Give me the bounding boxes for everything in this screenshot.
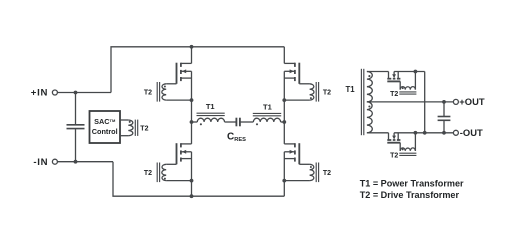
svg-text:-IN: -IN [33,157,48,168]
transistor Q6 (lower secondary sync MOSFET) [388,133,390,140]
op-amp U1 SAC Control block [90,111,121,143]
transformer T1 secondary winding upper half [367,72,372,102]
svg-text:CRES: CRES [227,132,246,144]
svg-text:+OUT: +OUT [459,96,485,107]
wire to output capacitor [443,102,445,116]
capacitor C-OUT [438,116,451,118]
wire SAC to T2 primary top [120,119,128,121]
transistor Q4 (lower-right bridge MOSFET) [294,143,296,147]
wire center tap to +OUT [367,101,453,103]
svg-text:T1: T1 [345,85,355,94]
svg-text:T2: T2 [144,90,152,97]
svg-text:T2: T2 [144,170,152,177]
transformer T2 primary winding (SAC drive) [128,120,133,136]
junction +IN / input cap [74,91,78,95]
wire midpoint A to T1 primary left [192,121,198,123]
svg-text:T2: T2 [140,126,148,133]
svg-text:T1: T1 [263,102,272,111]
transformer T1 primary winding (left half) [197,118,224,122]
wire upper output drop to -OUT rail [424,72,426,133]
transistor Q2 (lower-left bridge MOSFET) [180,143,182,147]
junction Q3 source / T2 drive [282,98,286,102]
svg-text:T2: T2 [323,90,331,97]
wire bottom rail [113,162,284,197]
transformer T2 drive winding for Q2 [166,163,176,165]
svg-text:T2: T2 [390,152,398,159]
svg-text:+IN: +IN [31,88,48,99]
svg-text:T2: T2 [323,170,331,177]
wire -IN to riser [57,161,113,163]
wire capacitor to -IN [75,129,77,162]
transistor Q1 (upper-left bridge MOSFET) [180,63,182,67]
junction bottom rail / left leg [190,194,194,198]
junction -IN / input cap [74,160,78,164]
wire output capacitor to -OUT [443,121,445,133]
junction Q6 drive return [414,131,418,135]
phase dot T1 primary left [200,123,202,125]
wire T1 secondary bottom terminal [367,132,389,134]
junction Q4 source / T2 drive [282,179,286,183]
junction Q1 source / T2 drive [190,98,194,102]
terminal -IN [52,159,57,164]
wire SAC to T2 primary bottom [120,135,128,137]
wire -OUT rail [394,132,453,134]
wire right leg: Q4 source to bottom rail [283,152,285,196]
junction output drop / -OUT rail [423,131,427,135]
transformer T2 drive winding for Q1 [166,83,176,85]
wire T1 left to C-RES [225,121,236,123]
svg-text:T2: T2 [390,91,398,98]
svg-text:T2 = Drive Transformer: T2 = Drive Transformer [360,190,460,200]
wire top rail [111,47,284,93]
junction Q2 source / T2 drive [190,179,194,183]
transformer T1 secondary winding lower half [367,102,372,133]
wire T1 right to midpoint B [281,121,285,123]
node A: left bridge midpoint [190,120,194,124]
svg-text:T1 = Power Transformer: T1 = Power Transformer [360,178,464,188]
phase dot T1 secondary upper [368,75,370,77]
svg-text:-OUT: -OUT [460,127,483,138]
transformer T2 drive winding for Q6 [399,143,401,151]
wire left leg: rail to Q1 drain [191,47,193,64]
wire C-RES to T1 right [241,121,254,123]
svg-text:T1: T1 [206,102,215,111]
terminal -OUT [453,130,458,135]
wire left leg: Q2 source to bottom rail [191,152,193,196]
wire +IN to riser [57,92,111,94]
transformer T1 primary winding (right half) [253,118,280,122]
node B: right bridge midpoint [282,120,286,124]
terminal +IN [52,90,57,95]
wire to input capacitor [75,93,77,125]
phase dot T1 primary right [256,123,258,125]
junction top rail / left leg [190,45,194,49]
junction +OUT / output cap [442,100,446,104]
wire right leg: Q3 source to Q4 drain [283,71,285,144]
wire Q5 source to output drop [394,71,425,73]
phase dot T1 secondary lower [368,105,370,107]
svg-text:Control: Control [92,127,118,136]
transformer T2 drive winding for Q4 [299,163,309,165]
transformer T1 secondary core [360,69,362,135]
capacitor C-RES [235,118,237,127]
transistor Q5 (upper secondary sync MOSFET) [388,72,390,79]
transistor Q3 (upper-right bridge MOSFET) [294,63,296,67]
junction Q5 drive return [414,70,418,74]
transformer T2 drive winding for Q5 [399,81,401,89]
transformer T2 drive winding for Q3 [299,83,309,85]
wire right leg: rail to Q3 drain [283,47,285,64]
terminal +OUT [453,99,458,104]
junction -OUT / output cap [442,131,446,135]
capacitor C-IN [67,124,85,126]
wire T1 secondary top terminal [367,71,389,73]
wire left leg: Q1 source to Q2 drain [191,71,193,144]
